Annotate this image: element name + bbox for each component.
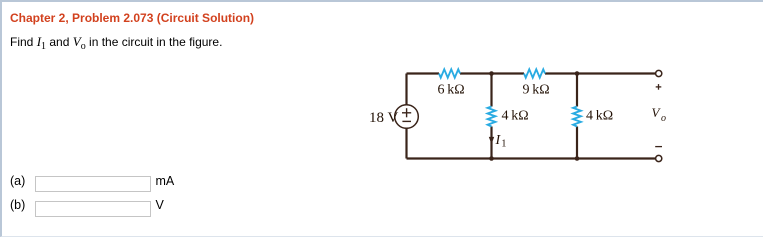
svg-text:6 kΩ: 6 kΩ [438,83,465,98]
svg-text:V: V [652,105,662,120]
svg-text:4 kΩ: 4 kΩ [586,109,613,124]
svg-text:4 kΩ: 4 kΩ [502,109,529,124]
svg-text:1: 1 [501,139,506,150]
svg-text:18 V: 18 V [369,110,398,126]
svg-text:9 kΩ: 9 kΩ [523,83,550,98]
svg-text:o: o [661,113,666,124]
